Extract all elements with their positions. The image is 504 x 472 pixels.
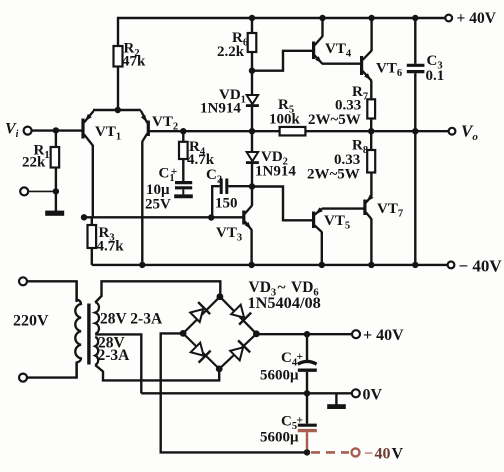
wire 0V line xyxy=(141,392,351,394)
node -40V rail / VT5 collector xyxy=(319,262,325,268)
node Vi/R1 junction xyxy=(53,127,59,133)
svg-text:VT7: VT7 xyxy=(377,201,403,220)
wire bridge arm bottom-right xyxy=(219,334,256,369)
wire 0V node to C5 xyxy=(306,393,308,423)
wire bridge arm top-right xyxy=(220,297,257,334)
wire mains top to primary xyxy=(27,281,76,302)
diode VD4 (bridge top-right) xyxy=(231,305,251,325)
terminal Vi input xyxy=(24,127,32,135)
svg-text:C2: C2 xyxy=(206,167,222,186)
wire VD2 to C2 node xyxy=(251,163,253,186)
label VT6 xyxy=(376,61,402,80)
svg-text:1N914: 1N914 xyxy=(200,101,241,117)
node top rail / VD-chain junction xyxy=(249,15,255,21)
wire C3 to output line xyxy=(414,73,416,131)
label secondary upper 28V 2-3A xyxy=(100,311,163,328)
label R2 value 47k xyxy=(122,54,146,70)
terminal -40V (supply) xyxy=(352,448,360,456)
diode VD5 (bridge bottom-left) xyxy=(191,343,211,363)
node top rail / VT6 collector junction xyxy=(368,15,374,21)
wire VT1-VT2 emitter line xyxy=(93,109,141,111)
resistor R4 xyxy=(179,142,188,159)
wire VT3 emitter to -40V rail xyxy=(250,229,252,265)
label R1 xyxy=(34,143,50,162)
resistor R5 xyxy=(280,127,306,136)
resistor R8 xyxy=(367,150,375,173)
transistor VT7 xyxy=(365,195,374,219)
label VD2 value 1N914 xyxy=(255,164,296,180)
wire bridge to +40V terminal xyxy=(256,333,352,335)
capacitor C1 xyxy=(174,183,193,197)
node +40V / C4 junction xyxy=(304,331,310,337)
wire C3 column to -40V rail xyxy=(414,131,416,265)
node C2 return junction xyxy=(208,214,214,220)
label R4 xyxy=(189,139,206,158)
label secondary lower 28V xyxy=(98,335,126,352)
label VD2 xyxy=(261,149,288,168)
label R6 value 2.2k xyxy=(217,44,245,60)
transformer T1 primary winding xyxy=(75,281,81,377)
wire VT5 collector to -40V rail xyxy=(321,232,323,265)
transistor VT4 xyxy=(314,18,323,64)
wire -40V rail xyxy=(92,264,448,266)
node bridge bottom xyxy=(216,366,223,373)
svg-text:VT2: VT2 xyxy=(152,114,178,133)
svg-text:220V: 220V xyxy=(13,313,49,330)
wire VT1 collector to VT3 base xyxy=(83,216,243,218)
wire Vi to VT1 base xyxy=(32,129,82,131)
terminal 0V xyxy=(352,389,360,397)
wire VT6 emitter to R7 xyxy=(370,80,372,99)
label +40V (amp) xyxy=(457,10,497,27)
svg-text:VT3: VT3 xyxy=(216,225,242,244)
node R6 bottom junction xyxy=(249,68,255,74)
diode VD1 xyxy=(246,95,259,106)
label C3 value 0.1 xyxy=(426,68,445,84)
diode VD3 (bridge top-left) xyxy=(190,302,210,322)
svg-text:22k: 22k xyxy=(22,155,46,171)
node VT3 base line left end xyxy=(81,214,87,220)
label VT3 xyxy=(216,225,242,244)
wire output node to R8 xyxy=(370,131,372,150)
transformer T1 core xyxy=(87,304,90,365)
terminal mains top xyxy=(19,277,27,285)
transistor VT3 xyxy=(244,187,252,230)
node ground junction xyxy=(53,188,59,194)
svg-text:4.7k: 4.7k xyxy=(187,152,215,168)
terminal mains bottom xyxy=(19,374,27,382)
transistor VT5 xyxy=(314,207,323,232)
node -40V rail / VT2 collector xyxy=(139,262,145,268)
svg-text:VT5: VT5 xyxy=(324,213,350,232)
transformer T1 secondary winding lower xyxy=(95,337,98,365)
transistor VT2 xyxy=(141,111,149,142)
capacitor C4 xyxy=(298,361,317,370)
wire secondary bottom lead xyxy=(95,365,219,380)
wire VT5 emitter to VT7 base xyxy=(322,207,364,209)
label R7 value 0.33 xyxy=(335,98,361,114)
resistor R7 xyxy=(367,99,375,118)
svg-text:+ 40V: + 40V xyxy=(457,10,497,27)
node R4 junction xyxy=(180,128,186,134)
wire R3 top xyxy=(91,217,93,225)
wire C5 to -40V line xyxy=(306,432,308,452)
label VT5 xyxy=(324,213,350,232)
terminal -40V (amp) xyxy=(448,262,455,269)
wire ground stub xyxy=(55,191,57,211)
label VD1 value 1N914 xyxy=(200,101,241,117)
terminal Vo output xyxy=(449,128,456,135)
svg-text:2.2k: 2.2k xyxy=(217,44,245,60)
wire VT4 emitter to VT6 base xyxy=(322,63,361,65)
ground symbol xyxy=(45,211,64,216)
svg-text:C4: C4 xyxy=(281,350,298,369)
svg-text:5600μ: 5600μ xyxy=(260,430,299,446)
label R5 xyxy=(278,97,294,116)
wire secondary top lead xyxy=(95,281,220,302)
wire rail to C3 xyxy=(414,18,416,64)
label +40V (supply) xyxy=(363,327,404,344)
label VT7 xyxy=(377,201,403,220)
label C4 value 5600u xyxy=(260,368,299,384)
wire bridge left node to -40V line xyxy=(161,333,307,452)
wire C2 node to VT5 base xyxy=(252,187,312,221)
node emitter junction xyxy=(115,107,121,113)
resistor R1 xyxy=(51,147,60,168)
label R2 xyxy=(124,41,140,60)
node output / C3 junction xyxy=(412,128,418,134)
node VD2/C2/VT3 junction xyxy=(249,183,255,189)
ground symbol (supply) xyxy=(327,404,346,409)
terminal input return xyxy=(20,187,28,195)
terminal +40V (supply) xyxy=(352,330,360,338)
node output / R7-R8 junction xyxy=(368,128,374,134)
capacitor C2 xyxy=(212,179,252,218)
svg-text:100k: 100k xyxy=(269,112,301,128)
label Vi xyxy=(5,121,19,141)
transformer T1 secondary winding upper xyxy=(95,302,99,334)
node top rail / C3 junction xyxy=(412,15,418,21)
svg-text:47k: 47k xyxy=(122,54,146,70)
label R1 value 22k xyxy=(22,155,46,171)
node -40V rail / VT7 collector xyxy=(368,262,374,268)
svg-text:−: − xyxy=(364,446,373,463)
capacitor C5 xyxy=(298,425,317,430)
wire secondary center tap xyxy=(95,334,141,393)
svg-text:+: + xyxy=(171,166,178,178)
svg-text:V: V xyxy=(392,446,404,463)
svg-text:4.7k: 4.7k xyxy=(97,239,125,255)
svg-text:2W~5W: 2W~5W xyxy=(308,112,361,128)
wire 0V ground stub xyxy=(335,393,337,404)
label VD1 xyxy=(219,87,246,106)
label C4 xyxy=(281,350,303,369)
label VT4 xyxy=(325,41,352,60)
svg-text:VT6: VT6 xyxy=(376,61,402,80)
svg-text:1N914: 1N914 xyxy=(255,164,296,180)
svg-text:0V: 0V xyxy=(363,387,383,404)
wire +40V top rail xyxy=(118,17,445,19)
svg-text:− 40V: − 40V xyxy=(459,257,503,276)
capacitor C3 xyxy=(407,65,425,71)
node bridge top xyxy=(217,293,224,300)
label C1 value 10u xyxy=(146,182,170,198)
wire -40V dashed to terminal xyxy=(311,451,349,454)
wire input node to R1 xyxy=(55,130,57,147)
resistor R2 xyxy=(114,46,123,67)
diode VD6 (bridge bottom-right) xyxy=(230,340,250,360)
wire C4 to 0V line xyxy=(306,372,308,394)
svg-text:28V 2-3A: 28V 2-3A xyxy=(100,311,163,328)
label R4 value 4.7k xyxy=(187,152,215,168)
svg-text:40: 40 xyxy=(375,446,391,463)
svg-text:25V: 25V xyxy=(145,197,171,213)
wire R1 to ground node xyxy=(55,168,57,192)
node bridge left xyxy=(180,330,187,337)
wire R7 to output node xyxy=(370,119,372,132)
wire R4 top xyxy=(182,131,184,142)
label VT2 xyxy=(152,114,178,133)
label R7 xyxy=(352,84,368,103)
label -40V (amp) xyxy=(459,257,503,276)
wire R4 to C1 xyxy=(182,159,184,181)
wire rail to R6 xyxy=(251,18,253,33)
label C3 xyxy=(427,53,443,72)
label C2 xyxy=(206,167,222,186)
wire mains bottom to primary xyxy=(27,363,76,378)
label R3 value 4.7k xyxy=(97,239,125,255)
node -40V / C5 junction xyxy=(304,449,310,455)
svg-text:VT1: VT1 xyxy=(95,124,121,143)
label 0V xyxy=(363,387,383,404)
svg-text:5600μ: 5600μ xyxy=(260,368,299,384)
svg-text:+: + xyxy=(297,351,304,363)
terminal +40V (amp) xyxy=(445,15,452,22)
wire R8 to VT7 emitter xyxy=(370,173,372,197)
label Vo xyxy=(461,122,478,144)
diode VD2 xyxy=(246,152,259,163)
wire bridge arm bottom-left xyxy=(183,333,219,369)
wire bridge arm top-left xyxy=(183,297,220,334)
wire VT1 collector down xyxy=(92,145,94,217)
label secondary lower 2-3A xyxy=(98,347,131,364)
wire node to VD1 xyxy=(251,71,253,95)
label C5 value 5600u xyxy=(260,430,299,446)
transistor VT1 xyxy=(83,111,94,146)
svg-text:Vi: Vi xyxy=(5,121,19,141)
label C2 value 150 xyxy=(215,196,238,212)
transistor VT6 xyxy=(362,18,372,81)
label R5 value 100k xyxy=(269,112,301,128)
wire R6 node to VT4 base xyxy=(252,51,312,71)
svg-text:2-3A: 2-3A xyxy=(98,347,131,364)
node VD chain / feedback junction xyxy=(249,128,255,134)
wire node to VD2 xyxy=(251,131,253,152)
wire R6 to VT4-base node xyxy=(251,52,253,71)
svg-text:Vo: Vo xyxy=(461,122,478,144)
wire VT2 collector to -40V rail xyxy=(141,141,143,265)
label 1N5404/08 xyxy=(248,293,321,312)
svg-text:+: + xyxy=(297,415,304,427)
wire VT2 base / feedback line xyxy=(149,130,449,132)
label VD3~VD6 xyxy=(249,279,319,299)
label R3 xyxy=(99,225,115,244)
label VT1 xyxy=(95,124,121,143)
wire rail corner to R2 xyxy=(117,17,119,46)
svg-text:0.1: 0.1 xyxy=(426,68,445,84)
svg-text:2W~5W: 2W~5W xyxy=(307,167,360,183)
label C1 xyxy=(159,166,178,185)
label 220V xyxy=(13,313,49,330)
resistor R6 xyxy=(248,33,257,52)
label R8 value 0.33 xyxy=(334,152,360,168)
label R8 xyxy=(352,138,368,157)
node -40V rail / column junction xyxy=(412,262,418,268)
wire VT7 collector to -40V rail xyxy=(370,219,372,265)
wire R3 to -40V rail xyxy=(91,248,93,265)
svg-text:+ 40V: + 40V xyxy=(363,327,404,344)
label C1 value 25V xyxy=(145,197,171,213)
wire VD1 to feedback node xyxy=(251,106,253,131)
label R8 rating 2W~5W xyxy=(307,167,360,183)
label -40V (supply) xyxy=(364,446,404,463)
svg-text:150: 150 xyxy=(215,196,238,212)
node -40V rail / VT3 emitter xyxy=(248,262,254,268)
wire return terminal to ground node xyxy=(28,190,56,192)
label R7 rating 2W~5W xyxy=(308,112,361,128)
label R6 xyxy=(232,30,248,49)
node bridge right xyxy=(253,330,260,337)
label C5 xyxy=(281,414,303,433)
node top rail / VT4 collector junction xyxy=(319,15,325,21)
svg-text:1N5404/08: 1N5404/08 xyxy=(248,293,321,312)
resistor R3 xyxy=(88,225,97,248)
wire +40V node to C4 xyxy=(306,334,308,361)
node 0V / C4-C5 junction xyxy=(304,390,310,396)
wire R2 to emitter node xyxy=(117,67,119,111)
svg-text:VT4: VT4 xyxy=(325,41,352,60)
